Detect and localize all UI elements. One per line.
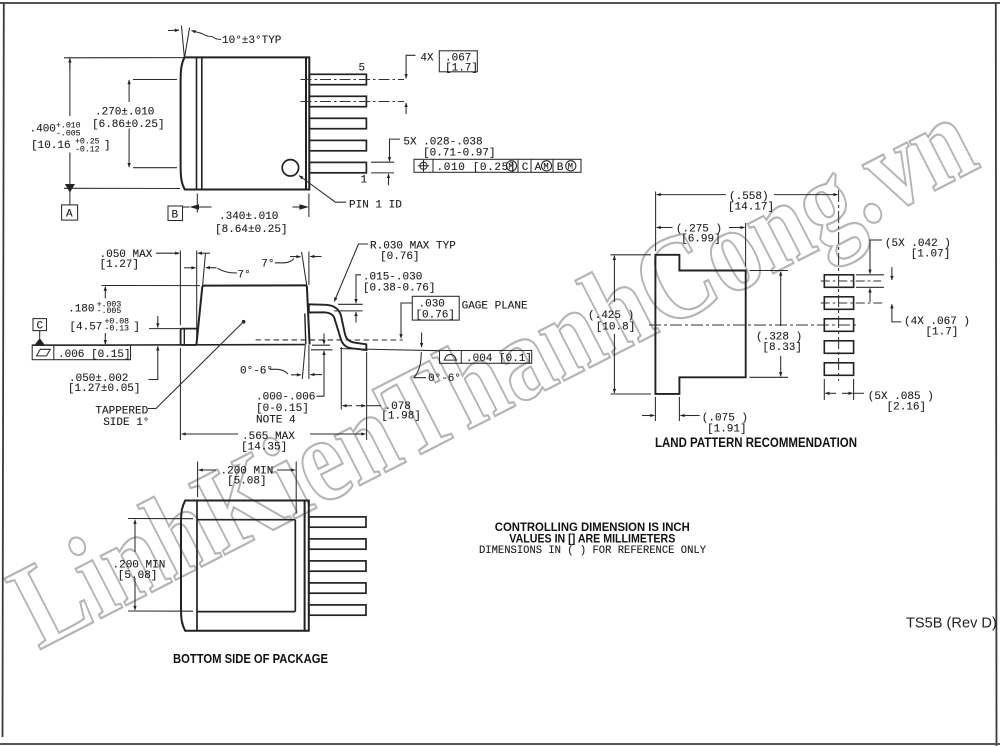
angle 10 deg right arrow + leader [192,31,213,37]
top view texts [30,35,496,236]
side view dimensions [32,244,532,440]
R.030 leader [334,244,368,302]
svg-text:-0.13: -0.13 [105,325,130,334]
svg-text:SIDE 1°: SIDE 1° [103,417,149,429]
(.075) arrows outside pointing in [642,415,654,417]
.200 MIN left: top extension [128,518,193,520]
.340 dimension line left arrow [199,206,212,208]
svg-text:7°: 7° [238,270,251,282]
land pad 5 [824,363,853,376]
top view body inner left line 2 [201,57,203,189]
side view body outline [196,285,309,344]
svg-text:BOTTOM SIDE OF PACKAGE: BOTTOM SIDE OF PACKAGE [173,651,328,666]
side view texts [37,241,533,454]
top view body inner left line 1 [196,57,198,189]
svg-text:(.425 ): (.425 ) [588,310,634,322]
.270 dimension line [128,80,130,102]
svg-text:[8.33]: [8.33] [762,342,802,354]
.200 MIN top dim line [199,469,216,471]
svg-text:[6.99]: [6.99] [681,234,721,246]
svg-text:[14.35]: [14.35] [241,442,287,454]
datum C filled triangle [35,338,45,345]
4X .067 boxed dimension [439,51,478,75]
(.075) connector to text [696,415,700,417]
foot underside tick [311,349,333,351]
side view mounting tab [181,329,197,345]
.050 +-.002 arrow down to tab top [157,316,159,328]
datum B connector [183,206,190,208]
seating plane dome symbol [444,354,458,360]
7 deg left leader curve [218,268,238,273]
svg-text:[0.76]: [0.76] [380,251,420,263]
lead 4 centerline [301,101,405,103]
datum C connector [39,331,41,339]
bottom lead 5 [309,605,366,615]
.015-.030 arrow up to lead bottom [355,312,357,323]
svg-text:.270±.010: .270±.010 [95,107,154,119]
7 deg right arrows [290,256,301,258]
.200 MIN left dim line [134,520,136,552]
.078 dim arrows (outward) [342,405,352,407]
0-6 deg left vertical ref below body [308,345,310,379]
land pattern tab pad outline [655,255,745,394]
lead 5 [309,74,366,84]
(.328) dim line [780,272,782,327]
7 deg left slant extension [203,253,206,286]
4X pitch callout elbow [406,55,415,67]
(5X .042) arrow down to pad1 top [869,258,871,274]
(5X .085) dim line [825,392,836,394]
top view dimensions [62,26,416,221]
lead1 top tick [371,161,394,163]
vertical centerline through pads [838,190,840,381]
exposed pad bottom edge [197,611,295,613]
.200 MIN left: bottom extension [128,610,193,612]
flatness feature control frame [32,345,130,359]
feature control frame texts [437,162,573,174]
svg-text:[1.07]: [1.07] [911,249,951,261]
.200 MIN top: right extension [295,462,297,514]
gage plane dashed line [256,339,403,341]
lead 5 centerline [301,79,405,81]
pin 1 id leader [299,176,346,203]
svg-text:.340±.010: .340±.010 [219,211,278,223]
svg-text:.004 [0.1]: .004 [0.1] [466,353,532,365]
.400 bottom extension line (datum plane) [64,187,180,189]
svg-text:[2.16]: [2.16] [887,402,927,414]
.050 MAX dim arrows [156,252,179,254]
flatness parallelogram symbol [37,349,51,356]
.078 right extension line [366,352,368,440]
gage plane box [412,296,459,320]
4X arrow down to lead5 centerline [405,67,407,78]
svg-text:TS5B (Rev D): TS5B (Rev D) [906,616,997,632]
svg-text:[0-0.15]: [0-0.15] [256,403,309,415]
svg-text:TAPPERED: TAPPERED [95,405,148,417]
land pad 3 [824,319,853,332]
.000-.006 arrow up to foot underside [323,351,325,362]
svg-text:A: A [66,209,73,221]
svg-text:B: B [557,162,564,174]
svg-text:[0.71-0.97]: [0.71-0.97] [423,148,496,160]
lead bottom tick [334,310,363,312]
pad2 centerline [821,302,885,304]
lead 3 [309,118,366,128]
top view body outline [181,57,306,189]
angle 10 deg left arrow [168,29,179,31]
(4X .067) arrow up to pad2 centerline + elbow [892,304,901,322]
angle 10 deg ref vertical line [181,26,184,58]
page frame left border [3,3,4,737]
(4X .067) arrow down to pad1 centerline [891,267,893,280]
.180 top extension line [102,285,201,287]
(5X .085) connector to text [854,392,864,394]
lead1 bottom tick [371,172,394,174]
angle 10 deg slant ext line [185,28,190,58]
svg-text:GAGE PLANE: GAGE PLANE [462,301,528,313]
.015-.030 elbow [356,275,361,288]
svg-text:C: C [522,162,529,174]
tappered side leader line [148,322,243,408]
.340 left extension line [196,194,198,213]
svg-text:PIN 1 ID: PIN 1 ID [349,200,402,212]
svg-text:M: M [568,162,573,172]
svg-text:[1.7]: [1.7] [445,62,478,74]
svg-text:[10.8]: [10.8] [596,322,636,334]
svg-text:-0.12: -0.12 [75,146,100,155]
(.425) bottom extension [611,393,652,395]
.400 top extension line [64,57,184,59]
.200 MIN top: left extension [197,462,199,498]
0-6 deg right arc [414,352,426,378]
center notes [495,520,690,545]
.050 +-.002 connector elbow [149,367,158,380]
svg-text:.006 [0.15]: .006 [0.15] [58,349,131,361]
svg-text:[1.91]: [1.91] [707,423,747,435]
svg-text:0°-6°: 0°-6° [240,366,273,378]
svg-text:-.005: -.005 [97,307,122,316]
5X arrow down to lead1 top [389,148,391,161]
.340 dimension line right arrow [293,206,300,208]
tab end inner line [183,329,185,345]
.078 connector to text [367,405,381,407]
svg-text:4X: 4X [420,53,434,65]
tab top edge extension tick [149,328,181,330]
svg-text:LAND PATTERN RECOMMENDATION: LAND PATTERN RECOMMENDATION [655,435,857,450]
pad1 top tick [856,274,884,276]
4X arrow up to lead4 centerline [405,103,407,114]
(.558) left extension [655,192,657,252]
svg-text:7°: 7° [261,258,274,270]
svg-text:[4.57: [4.57 [69,322,102,334]
svg-text:[1.7]: [1.7] [925,327,958,339]
svg-text:0°-6°: 0°-6° [428,373,461,385]
(.558) dim line [657,194,726,196]
lead 4 [309,96,366,106]
.340 right extension line [308,194,310,218]
svg-text:[6.86±0.25]: [6.86±0.25] [92,119,165,131]
7 deg right slant extension [302,252,307,285]
land pad 4 [824,341,853,354]
.565 dim line and arrows [182,433,239,435]
(.275) right extension [745,223,747,267]
svg-text:[14.17]: [14.17] [728,202,774,214]
datum A filled triangle [65,184,75,193]
feature control frame (position tolerance) [414,159,581,172]
exposed pad top edge [197,519,295,521]
pad1 centerline [821,280,881,282]
(.328) bottom extension [750,376,789,378]
bottom view right edge second line [305,501,309,631]
0-6 deg left slant line [302,345,305,379]
bottom lead 2 [309,539,366,549]
svg-text:[0.76]: [0.76] [415,310,455,322]
lead 1 [309,162,366,172]
datum C box [33,319,47,331]
svg-text:5: 5 [359,63,366,75]
svg-text:[5.08]: [5.08] [227,476,267,488]
7 deg left arrows [184,267,196,269]
svg-text:.000-.006: .000-.006 [256,392,315,404]
svg-text:[1.27±0.05]: [1.27±0.05] [68,383,141,395]
svg-text:NOTE 4: NOTE 4 [256,414,296,426]
0-6 deg left arrows [291,374,301,376]
svg-text:[1.98]: [1.98] [381,411,421,423]
svg-text:.180: .180 [68,304,94,316]
datum A box [62,205,78,220]
5X arrow up to lead1 bottom [388,174,390,185]
(.425) dim line [613,256,615,302]
(5X .085) right extension [853,379,855,400]
.180 dim line and arrows [104,287,106,299]
7 deg right leader [275,259,294,263]
svg-text:M: M [508,162,513,172]
svg-text:B: B [172,210,179,222]
svg-text:C: C [37,321,44,333]
bottom view dimensions [128,462,296,612]
svg-text:]: ] [133,322,140,334]
.004 feature control frame [440,351,532,364]
side view body inner right line [305,314,306,345]
0-6 deg left leader [270,369,289,374]
lead (side profile S-bend) [309,304,367,350]
svg-text:10°±3°TYP: 10°±3°TYP [222,35,282,47]
.565 left extension line [179,348,181,440]
7 deg right vertical ref line [308,252,310,286]
.050 MAX right extension line (body slant base vertical) [196,251,198,345]
5X lead width callout elbow [390,139,401,148]
land pattern dimensions [611,192,902,422]
.270 bottom extension line [133,167,177,169]
lead top tick [338,303,363,305]
page frame top border [0,2,1000,4]
.000-.006 seating tick [312,344,330,346]
land pad 2 [824,297,853,310]
svg-text:M: M [543,162,548,172]
seating line extension under foot (0-6 deg ref) [340,349,439,351]
modifier circles [506,161,516,171]
bottom lead 3 [309,561,366,571]
0-6 deg right arrow through gage line [421,333,423,348]
svg-text:[1.27]: [1.27] [100,259,140,271]
lead 2 [309,140,366,150]
.050 MAX left extension line (tab end) [179,251,181,326]
horizontal centerline [649,324,857,326]
svg-text:[8.64±0.25]: [8.64±0.25] [215,224,288,236]
bottom lead 1 [309,517,366,527]
land pad 1 [824,275,853,288]
datum A connector [69,188,71,205]
svg-text:[0.38-0.76]: [0.38-0.76] [363,282,436,294]
svg-text:[5.08]: [5.08] [118,570,158,582]
svg-text:A: A [535,162,542,174]
(.425) top extension [611,254,652,256]
svg-text:1: 1 [361,175,368,187]
.400 dimension line [69,58,71,116]
svg-text:.010 [0.25]: .010 [0.25] [437,162,516,174]
.000-.006 elbow [317,362,325,397]
(5X .042) arrow up to pad1 bottom [869,288,871,302]
svg-text:DIMENSIONS IN ( ) FOR REFERENC: DIMENSIONS IN ( ) FOR REFERENCE ONLY [479,545,706,557]
tappered side leader dot [242,320,246,324]
(5X .042) elbow [870,240,882,258]
gage plane leader [401,303,412,338]
svg-text:]: ] [104,140,111,152]
.050 +-.002 arrow up to seating plane [157,346,159,366]
(.075) right extension [678,397,680,421]
.000-.006 arrow down to seating [323,334,325,345]
side view body bottom / seating plane line [32,344,305,347]
.270 top extension line [133,79,177,81]
(.075) left extension [654,397,656,421]
bottom view inner left line [196,501,198,631]
bottom lead 4 [309,583,366,593]
(.275) dim line [657,227,673,229]
datum B box [168,206,183,221]
position symbol [420,162,427,169]
page frame bottom border [0,743,1000,745]
top view body right edge second line [306,57,309,189]
page frame right border [995,3,998,746]
bottom view body outline [181,501,305,631]
(5X .085) left extension [823,379,825,400]
.015-.030 arrow down to lead top [355,288,357,303]
.078 left extension line [340,347,342,410]
exposed pad right edge [294,520,296,612]
svg-text:[10.16: [10.16 [31,140,71,152]
land pattern texts [588,191,970,435]
pin 1 id circle [282,160,298,176]
pad1 bottom tick [856,286,884,288]
svg-text:.400: .400 [30,123,56,135]
svg-text:VALUES IN [] ARE MILLIMETERS: VALUES IN [] ARE MILLIMETERS [509,532,675,546]
(.328) top extension [750,270,789,272]
